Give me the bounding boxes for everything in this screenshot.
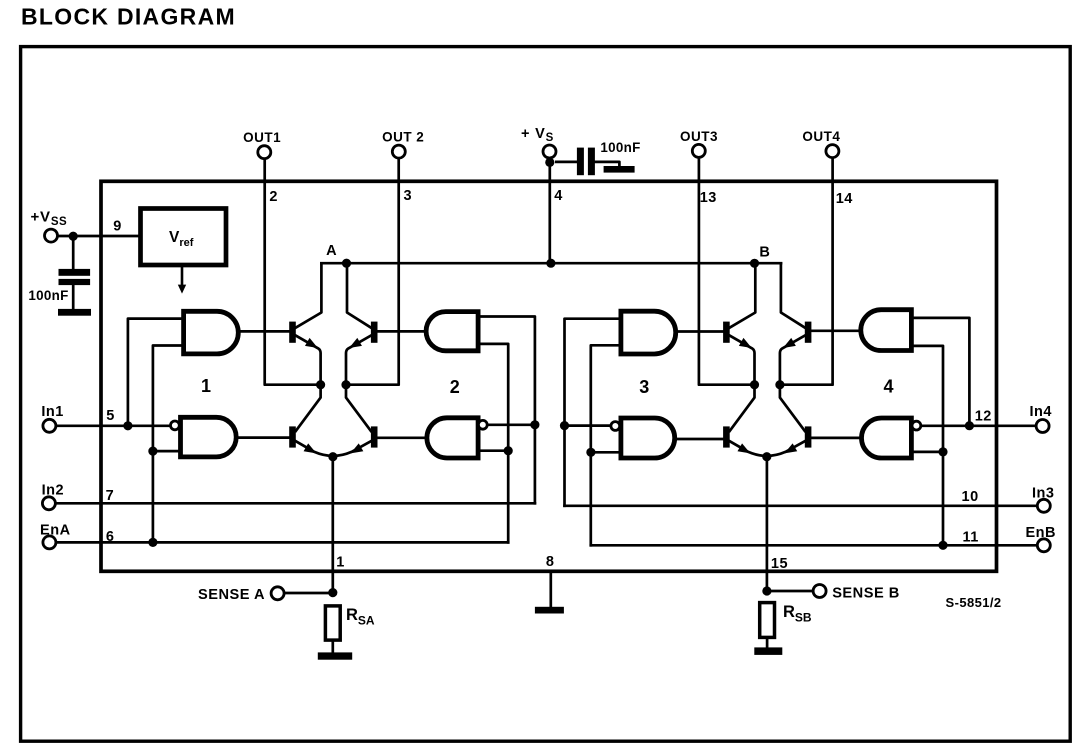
svg-text:SENSE A: SENSE A [198,587,265,603]
svg-text:7: 7 [106,488,115,504]
svg-text:BLOCK DIAGRAM: BLOCK DIAGRAM [21,4,236,30]
svg-text:1: 1 [336,555,345,571]
svg-text:4: 4 [554,188,563,204]
svg-text:100nF: 100nF [600,140,640,155]
svg-text:OUT4: OUT4 [802,129,840,144]
svg-text:In2: In2 [42,482,64,498]
svg-text:EnA: EnA [40,522,71,538]
svg-text:OUT3: OUT3 [680,129,718,144]
svg-text:11: 11 [963,530,979,546]
svg-text:5: 5 [106,408,115,424]
svg-text:1: 1 [201,376,212,396]
svg-text:B: B [759,244,770,260]
svg-text:3: 3 [639,377,650,397]
svg-text:8: 8 [546,554,555,570]
svg-text:100nF: 100nF [28,288,68,303]
svg-text:9: 9 [113,219,122,235]
svg-text:In1: In1 [41,404,63,420]
svg-text:14: 14 [836,191,853,207]
svg-text:2: 2 [450,377,461,397]
svg-text:OUT 2: OUT 2 [382,130,424,145]
svg-text:OUT1: OUT1 [243,130,281,145]
svg-text:A: A [326,243,337,259]
svg-text:S-5851/2: S-5851/2 [946,595,1002,610]
svg-text:15: 15 [771,556,788,572]
svg-text:EnB: EnB [1025,525,1056,541]
svg-text:3: 3 [404,188,413,204]
svg-text:6: 6 [106,529,115,545]
svg-text:13: 13 [700,190,717,206]
svg-text:In4: In4 [1029,404,1051,420]
svg-text:SENSE B: SENSE B [832,585,900,601]
svg-text:12: 12 [975,409,992,425]
svg-text:10: 10 [962,489,979,505]
svg-text:4: 4 [884,377,895,397]
svg-text:In3: In3 [1032,485,1054,501]
svg-text:2: 2 [269,189,278,205]
